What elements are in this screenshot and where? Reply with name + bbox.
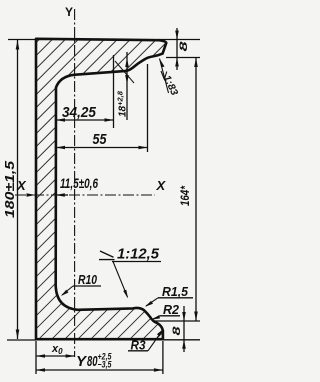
svg-text:X: X [16, 178, 27, 193]
svg-text:X: X [156, 178, 167, 193]
svg-text:R10: R10 [78, 272, 98, 287]
svg-text:34,25: 34,25 [62, 104, 97, 121]
svg-text:8: 8 [178, 40, 190, 51]
svg-text:55: 55 [93, 131, 108, 148]
svg-text:1:12,5: 1:12,5 [117, 246, 160, 263]
svg-text:−3,5: −3,5 [98, 360, 113, 370]
svg-text:164*: 164* [178, 185, 192, 206]
svg-text:11,5±0,6: 11,5±0,6 [60, 176, 98, 191]
svg-text:180±1,5: 180±1,5 [2, 160, 17, 218]
svg-text:8: 8 [171, 325, 183, 335]
svg-text:Y: Y [65, 5, 73, 19]
svg-text:R2: R2 [163, 302, 180, 317]
svg-text:R1,5: R1,5 [162, 284, 189, 299]
svg-text:80: 80 [87, 353, 98, 370]
